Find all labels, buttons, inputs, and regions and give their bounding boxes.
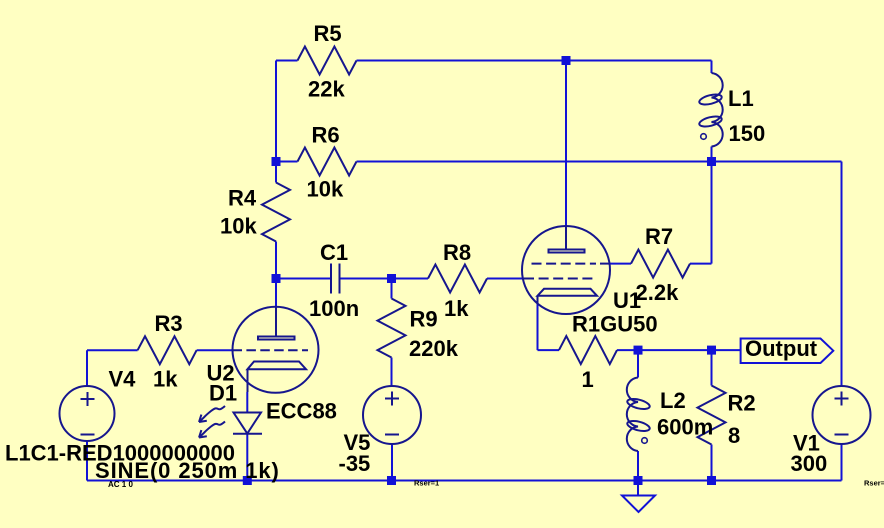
svg-text:U1: U1: [613, 288, 641, 313]
svg-text:R1GU50: R1GU50: [572, 312, 658, 337]
svg-text:R3: R3: [155, 311, 183, 336]
svg-text:150: 150: [729, 121, 766, 146]
svg-text:V4: V4: [109, 367, 137, 392]
svg-text:AC 1 0: AC 1 0: [108, 480, 133, 489]
svg-text:L1: L1: [728, 86, 754, 111]
svg-text:R8: R8: [443, 240, 471, 265]
svg-text:R9: R9: [410, 307, 438, 332]
svg-text:600m: 600m: [657, 415, 713, 440]
svg-text:220k: 220k: [409, 336, 459, 361]
svg-text:R2: R2: [728, 391, 756, 416]
svg-text:Output: Output: [745, 336, 818, 361]
svg-text:8: 8: [728, 423, 740, 448]
svg-text:10k: 10k: [220, 214, 257, 239]
svg-text:Rser=: Rser=: [864, 479, 884, 488]
svg-text:2.2k: 2.2k: [636, 280, 680, 305]
svg-text:300: 300: [791, 451, 828, 476]
svg-text:R6: R6: [312, 123, 340, 148]
svg-text:L2: L2: [660, 388, 686, 413]
svg-text:1k: 1k: [444, 296, 469, 321]
svg-text:ECC88: ECC88: [266, 399, 337, 424]
svg-text:R5: R5: [314, 21, 342, 46]
svg-text:100n: 100n: [309, 296, 359, 321]
svg-text:1k: 1k: [153, 367, 178, 392]
svg-text:1: 1: [582, 367, 594, 392]
svg-text:10k: 10k: [307, 177, 344, 202]
svg-text:R7: R7: [645, 224, 673, 249]
svg-text:R4: R4: [228, 186, 257, 211]
svg-text:D1: D1: [209, 381, 237, 406]
svg-text:-35: -35: [339, 451, 371, 476]
svg-text:C1: C1: [320, 240, 348, 265]
svg-text:22k: 22k: [308, 77, 345, 102]
svg-text:Rser=1: Rser=1: [414, 479, 439, 488]
